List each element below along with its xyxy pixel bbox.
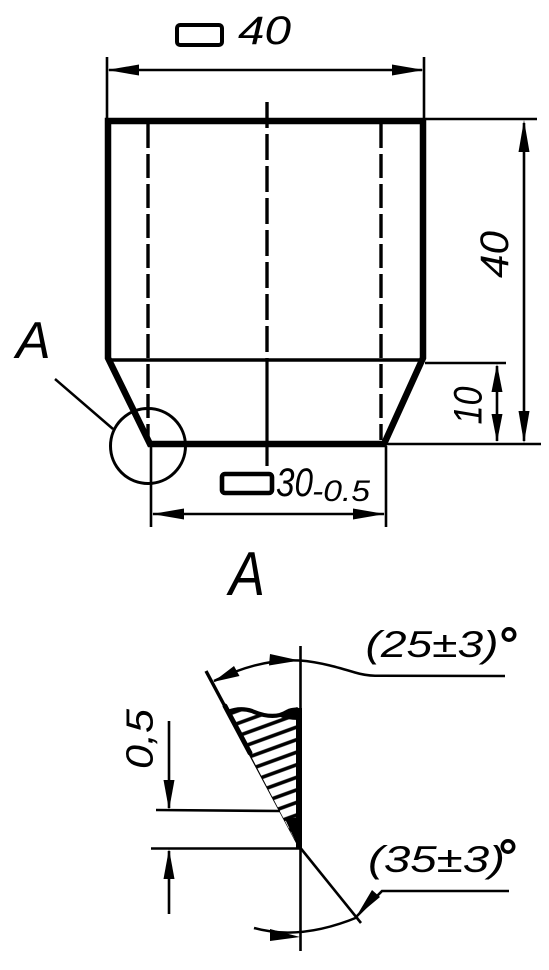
arrow on arc at flank line <box>213 666 240 682</box>
degree sign of 35 <box>502 841 513 852</box>
arrow up of 10 <box>492 364 503 392</box>
detail: burr right edge (thick) <box>296 708 302 848</box>
detail: 35 degree line <box>301 848 362 923</box>
svg-text:40: 40 <box>238 9 291 53</box>
part outline <box>108 121 423 444</box>
detail: center line vertical <box>299 646 302 951</box>
extension line shoulder right <box>425 362 506 365</box>
svg-text:10: 10 <box>447 387 491 425</box>
detail callout circle A <box>111 409 186 484</box>
shoulder edge <box>108 358 423 361</box>
detail: 0.5 lower tick line <box>151 847 300 850</box>
center line <box>265 102 268 466</box>
0.5 dimension line lower <box>168 851 171 914</box>
leader of 35 label <box>357 891 509 916</box>
arrow down of 40 right <box>519 411 530 443</box>
arrow on arc 35 at center line <box>270 929 300 941</box>
detail: 0.5 upper tick line <box>156 810 280 811</box>
hidden line left <box>146 124 149 442</box>
svg-text:0,5: 0,5 <box>120 708 162 769</box>
arrow of 35 leader <box>356 890 380 917</box>
svg-text:(25±3): (25±3) <box>366 624 499 665</box>
detail: hatched burr area <box>228 709 298 846</box>
degree sign of 25 <box>503 629 514 640</box>
top dimension extension line left <box>106 57 109 118</box>
svg-text:30: 30 <box>276 461 313 505</box>
svg-text:A: A <box>226 540 265 609</box>
arrow up 0.5 <box>164 849 175 879</box>
arrow right of top dimension <box>392 65 424 76</box>
detail: 25 degree flank line <box>206 671 301 848</box>
bottom dimension line <box>153 513 384 516</box>
leader to callout <box>55 379 113 429</box>
svg-text:(35±3): (35±3) <box>368 839 505 880</box>
bottom dimension extension line left <box>150 446 153 527</box>
arrow left of top dimension <box>107 65 139 76</box>
hidden line right <box>379 124 382 440</box>
arrow down 0.5 <box>164 780 175 810</box>
arrow down of 10 <box>492 414 503 442</box>
top dimension line <box>109 69 422 72</box>
detail: burr tip fill <box>285 817 301 852</box>
svg-text:A: A <box>13 312 51 370</box>
arrow on arc at center line <box>269 654 300 666</box>
0.5 dimension line upper <box>168 721 171 808</box>
dimension line 10 <box>496 366 499 441</box>
arrow up of 40 right <box>519 120 530 152</box>
detail: angle arc 25 with leader <box>214 660 505 681</box>
top dimension extension line right <box>423 57 426 118</box>
detail: burr top edge <box>228 709 298 716</box>
extension line top right <box>426 118 537 121</box>
arrow right of bottom dimension <box>353 509 385 520</box>
extension line bottom right <box>387 443 541 446</box>
square symbol top <box>177 25 222 45</box>
dimension line 40 right <box>523 123 526 441</box>
detail: flank line thick segment <box>225 706 250 753</box>
detail: angle arc 35 <box>254 917 358 933</box>
arrow left of bottom dimension <box>152 509 184 520</box>
detail: burr top right corner blob <box>278 708 299 720</box>
bottom dimension extension line right <box>385 446 388 527</box>
svg-text:-0.5: -0.5 <box>312 475 370 508</box>
square symbol bottom <box>222 474 272 493</box>
svg-text:40: 40 <box>473 231 517 278</box>
